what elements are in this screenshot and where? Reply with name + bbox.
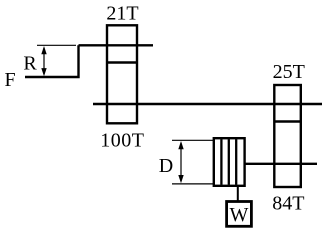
svg-text:R: R (23, 52, 37, 74)
mesh line between 21T and 100T (107, 61, 137, 63)
arrowhead D up (178, 141, 183, 149)
svg-text:100T: 100T (100, 129, 144, 151)
arrowhead R up (41, 46, 46, 54)
arrowhead D down (178, 175, 183, 183)
svg-text:F: F (4, 69, 15, 91)
dimension arrow line D (180, 143, 182, 181)
mesh line between 25T and 84T (274, 120, 301, 122)
cord from drum to weight W (237, 185, 239, 202)
weight W box (227, 202, 252, 227)
arrowhead R down (41, 68, 46, 76)
shaft 3 (84T gear and drum) (245, 163, 317, 165)
dimension reference line for R (37, 44, 76, 46)
drum D outline (214, 138, 245, 186)
drum winding line 1 (220, 139, 222, 185)
shaft 1 (input shaft, 21T gear) (79, 44, 154, 46)
gear pair box G1 (21T over 100T) (107, 25, 137, 123)
svg-text:25T: 25T (273, 61, 305, 83)
dimension arrow line R (43, 48, 45, 74)
svg-text:84T: 84T (272, 193, 304, 215)
gear pair box G2 (25T over 84T) (274, 85, 301, 187)
dimension tick top of drum (172, 139, 213, 141)
drum winding line 3 (235, 139, 237, 185)
svg-text:21T: 21T (106, 3, 138, 25)
crank handle (force F applied) (25, 45, 79, 77)
dimension tick bottom of drum (172, 183, 213, 185)
drum winding line 2 (228, 139, 230, 185)
svg-text:W: W (230, 204, 249, 226)
svg-text:D: D (159, 155, 173, 177)
shaft 2 (100T and 25T gears) (93, 103, 322, 105)
